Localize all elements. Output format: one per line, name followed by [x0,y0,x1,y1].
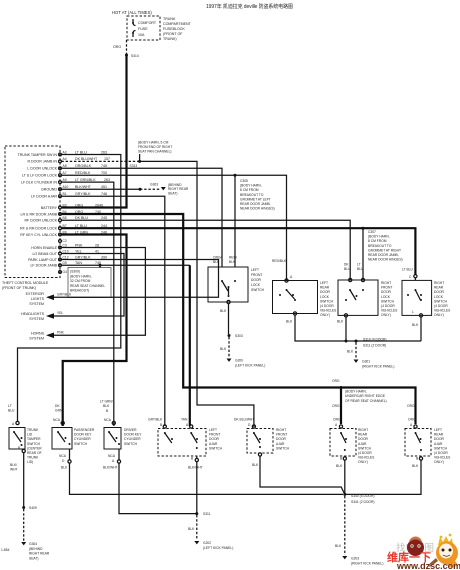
svg-text:G303: G303 [150,183,158,187]
svg-text:LF DLK CYLINDER IN: LF DLK CYLINDER IN [21,180,57,184]
svg-text:RF DOOR UNLOCK: RF DOOR UNLOCK [24,219,57,223]
svg-text:BLK/WHT: BLK/WHT [103,466,118,470]
svg-text:GRY/BLK: GRY/BLK [148,418,163,422]
pin A10 row GROUND [41,185,107,192]
svg-text:1997年 凯迪拉克 deville 防盗系统电路图: 1997年 凯迪拉克 deville 防盗系统电路图 [206,3,293,10]
svg-text:BLK/WHT: BLK/WHT [75,185,92,189]
svg-text:REAR: REAR [320,286,330,290]
driver door key lock cylinder switch S3 [100,400,142,450]
svg-text:LT: LT [8,404,12,408]
wire LT BLU 244 to right rear door lock switch [61,228,415,274]
svg-text:(S309): (S309) [70,270,80,274]
svg-text:ORG/BLK: ORG/BLK [75,164,92,168]
svg-text:PNK: PNK [75,243,83,247]
svg-text:VEHICLES: VEHICLES [434,456,451,460]
wire ORG from fuse (dashed above splice) [113,40,127,54]
splice on ORG bus [340,386,343,424]
ground G200 left kick panel [227,359,266,368]
svg-text:SWITCH: SWITCH [251,288,265,292]
svg-text:SEAT): SEAT) [29,556,38,560]
svg-text:BLK: BLK [213,260,220,264]
svg-text:BLK/: BLK/ [10,463,17,467]
svg-text:D5: D5 [63,261,67,265]
ground G203 right kick panel [342,556,383,565]
svg-text:L DOOR UNLOCK: L DOOR UNLOCK [27,167,57,171]
wire BLK/WHT from ajar switch to splice S311 [188,456,203,514]
svg-text:PNK: PNK [57,331,65,335]
svg-text:ONLY): ONLY) [358,460,368,464]
svg-text:10A: 10A [138,33,145,37]
svg-text:G304: G304 [29,542,37,546]
svg-text:ONLY): ONLY) [434,460,444,464]
svg-text:RIGHT REAR: RIGHT REAR [29,552,50,556]
svg-text:245: 245 [101,216,107,220]
svg-text:LEFT: LEFT [209,428,217,432]
svg-text:RIGHT: RIGHT [358,428,368,432]
svg-text:GROMMET AT RIGHT: GROMMET AT RIGHT [368,248,401,252]
svg-text:LT & LF DOOR LOCK: LT & LF DOOR LOCK [22,174,58,178]
wire RED/BLK 700 to left front door lock switch [61,175,235,267]
wire GRY/BLK 390 to exterior lights system [53,260,219,298]
svg-text:LT: LT [357,263,361,267]
note body harness right seat pan channel [138,141,172,161]
wire BLK from S7 to splice S340 [345,456,423,494]
wire LT GRN/BLK 248 to driver door key lock cylinder switch [61,182,113,426]
svg-text:A5: A5 [63,164,67,168]
svg-text:BLK/WHT: BLK/WHT [188,466,203,470]
wire YEL 41 to headlights system [53,254,124,317]
svg-text:(4 DOOR: (4 DOOR [434,304,448,308]
svg-text:LID): LID) [27,460,33,464]
svg-text:(RIGHT KICK PANEL): (RIGHT KICK PANEL) [362,364,395,368]
wire DK BLU 245 to right front door lock switch [61,220,350,280]
svg-text:BLK: BLK [61,466,68,470]
svg-text:SEAT): SEAT) [168,191,177,195]
left front door lock switch U1 [208,256,265,304]
svg-text:ORG: ORG [75,203,83,207]
svg-text:TRUNK: TRUNK [27,428,39,432]
svg-text:LIGHTS: LIGHTS [31,297,45,301]
theft control module dashed box [5,146,60,278]
svg-text:LT GRN/BLK: LT GRN/BLK [75,178,96,182]
wire DK BLU/WHT 157 dashed to splice S313 [61,160,139,162]
svg-text:(BODY HARN, 5 CM: (BODY HARN, 5 CM [138,141,169,145]
title [206,3,293,10]
svg-text:G301: G301 [362,360,370,364]
svg-text:NEAR DOOR HINGES): NEAR DOOR HINGES) [368,258,403,262]
svg-text:8 CM FROM: 8 CM FROM [240,188,259,192]
svg-text:AJAR: AJAR [276,442,285,446]
svg-text:(4 DOOR: (4 DOOR [358,451,372,455]
splice S313 [130,160,142,168]
svg-text:BLK: BLK [229,260,236,264]
svg-text:SWITCH: SWITCH [124,442,138,446]
pin B7 row RF & RR DOOR LOCK [20,224,107,231]
svg-text:VEHICLES: VEHICLES [381,309,398,313]
svg-text:ORG/: ORG/ [213,256,222,260]
wire PNK 28 to horns system [53,248,145,336]
svg-text:FRONT: FRONT [251,273,262,277]
svg-text:DOOR: DOOR [381,290,392,294]
svg-text:SYSTEM: SYSTEM [29,336,44,340]
wire TAN 745 to left front door ajar switch [61,265,189,426]
svg-text:REAR SEAT CHANNEL: REAR SEAT CHANNEL [70,284,105,288]
svg-text:CYLINDER: CYLINDER [124,437,141,441]
ORG bus labels [332,379,415,408]
svg-text:LO BEAM OUT: LO BEAM OUT [32,252,57,256]
svg-text:DOOR: DOOR [358,437,369,441]
pin A9 row LF DLK CYLINDER IN [21,178,110,185]
svg-text:TAN: TAN [181,418,188,422]
svg-text:A3: A3 [63,150,67,154]
wire BLK from U4 to ground bus [412,310,421,341]
svg-text:AJAR: AJAR [358,442,367,446]
ground G303 behind right rear seat [150,183,189,196]
svg-text:BREAKOUT TO: BREAKOUT TO [240,193,264,197]
svg-text:BATTERY: BATTERY [41,206,58,210]
svg-text:2640: 2640 [95,203,103,207]
svg-text:B3: B3 [63,203,67,207]
wire BLK from S5 to ground splice S340 [252,453,345,495]
svg-text:G200: G200 [235,359,243,363]
svg-text:COMFORT: COMFORT [138,21,157,25]
svg-text:ONLY): ONLY) [381,313,391,317]
right rear door lock switch U4 [402,268,451,318]
svg-text:ORG: ORG [113,45,121,49]
svg-text:390: 390 [101,255,107,259]
svg-text:LF DOOR JAMB: LF DOOR JAMB [30,264,57,268]
wire LT GRN 246 to passenger door key lock cylinder switch [61,235,126,427]
wire GRY/BLK 746 to left front door ajar switch [61,196,164,426]
right front door lock switch U3 [338,263,398,318]
svg-text:SYSTEM: SYSTEM [29,302,44,306]
hot-at-all-times label [112,10,152,15]
left front door ajar switch S4 [148,418,223,457]
svg-text:DOOR: DOOR [209,437,220,441]
svg-text:SYSTEM: SYSTEM [29,317,44,321]
svg-text:L: L [412,310,414,314]
svg-text:1-854: 1-854 [1,548,10,552]
svg-text:C10: C10 [63,249,69,253]
pin C10 row LO BEAM OUT [32,249,99,256]
svg-text:BLU: BLU [357,267,364,271]
wire ORG 740 bus to rear door ajar switches [61,214,415,424]
svg-text:RIGHT: RIGHT [276,428,286,432]
splice S340/S341 [343,493,374,504]
svg-text:S313: S313 [130,164,138,168]
svg-text:746: 746 [101,192,107,196]
right front door ajar switch S5 [234,418,290,454]
ground G202 left kick panel [194,541,233,550]
svg-text:(BODY HARN,: (BODY HARN, [70,274,92,278]
svg-text:AJAR: AJAR [434,442,443,446]
splice junction on RED/BLK [234,174,237,177]
svg-text:(FRONT OF: (FRONT OF [163,32,183,36]
svg-text:LEFT: LEFT [434,428,442,432]
svg-text:(4 DOOR: (4 DOOR [381,304,395,308]
svg-text:HORN ENABLE: HORN ENABLE [31,246,57,250]
svg-text:DK BLU/WHT: DK BLU/WHT [234,418,254,422]
svg-text:(4 DOOR: (4 DOOR [320,304,334,308]
pin B1 row LF DOOR AJAR [31,192,107,199]
wire DK BLU/WHT to right front door ajar switch [140,161,254,427]
svg-text:S414: S414 [131,54,139,58]
svg-text:NCA: NCA [104,418,112,422]
svg-text:LOCK: LOCK [320,295,330,299]
svg-text:LT BLU: LT BLU [75,150,87,154]
pin B9 row RF KEY CYL UNLOCK [20,230,107,237]
svg-text:REAR DOOR JAMB,: REAR DOOR JAMB, [368,253,399,257]
svg-text:REAR: REAR [358,433,368,437]
pin A5 row L DOOR UNLOCK [27,164,107,171]
svg-text:GROUND: GROUND [41,188,57,192]
svg-text:(FRONT OF TRUNK): (FRONT OF TRUNK) [2,286,36,290]
svg-text:LEFT: LEFT [251,268,259,272]
ground G304 behind right rear seat [21,542,50,560]
svg-text:(LEFT KICK PANEL): (LEFT KICK PANEL) [203,546,233,550]
svg-text:ORG: ORG [407,404,415,408]
arrow headlights system [21,311,63,321]
svg-text:SWITCH: SWITCH [381,299,395,303]
svg-text:NEAR DOOR HINGES): NEAR DOOR HINGES) [240,207,275,211]
svg-text:RIGHT: RIGHT [434,281,444,285]
svg-text:DOOR KEY: DOOR KEY [74,433,92,437]
svg-text:FRONT: FRONT [276,433,287,437]
svg-text:LT GRN/: LT GRN/ [100,400,113,404]
svg-text:DK: DK [344,263,349,267]
svg-text:ONLY): ONLY) [320,313,330,317]
svg-text:157: 157 [104,157,110,161]
svg-text:GRN: GRN [55,409,63,413]
svg-text:(LEFT KICK PANEL): (LEFT KICK PANEL) [235,363,265,367]
svg-text:TRUNK TAMPER SW IN: TRUNK TAMPER SW IN [18,153,58,157]
wire BLK dashed to ground G202 [188,515,197,540]
pin A7 row LT & LF DOOR LOCK [22,171,107,178]
svg-text:700: 700 [101,171,107,175]
svg-text:HOT AT (ALL TIMES): HOT AT (ALL TIMES) [112,10,152,15]
svg-text:BLK: BLK [412,464,419,468]
svg-text:LR & RR DOOR JAMB: LR & RR DOOR JAMB [20,212,57,216]
svg-text:(BODY HARN,: (BODY HARN, [368,235,390,239]
svg-text:SEAT PAN CHANNEL): SEAT PAN CHANNEL) [138,150,172,154]
svg-text:C12: C12 [63,255,69,259]
svg-text:LT BLU: LT BLU [402,268,413,272]
svg-text:PARK LAMP OUT: PARK LAMP OUT [28,258,58,262]
svg-text:LID: LID [27,433,33,437]
svg-text:TRUNK: TRUNK [27,456,39,460]
splice S311 [195,512,210,516]
svg-text:(4 DOOR: (4 DOOR [434,451,448,455]
svg-text:RF & RR DOOR LOCK: RF & RR DOOR LOCK [20,227,58,231]
svg-text:GRY/BLK: GRY/BLK [57,293,72,297]
svg-text:FUSEBLOCK: FUSEBLOCK [163,27,185,31]
svg-text:S310 (4 DOOR): S310 (4 DOOR) [363,338,386,342]
wire BLK/WHT from driver key switch to splice S311 [103,449,196,514]
wire BLK dashed to ground G200 [220,337,229,358]
svg-text:COMPARTMENT: COMPARTMENT [163,22,192,26]
splice on LT BLU [362,227,365,280]
pin B5 row RF DOOR UNLOCK [24,216,107,223]
svg-text:REAR: REAR [434,433,444,437]
wire BLK from U2 to ground bus [286,315,421,341]
svg-text:VEHICLES: VEHICLES [434,309,451,313]
wire BLK/WHT 451 to ground G303 [61,188,160,191]
svg-text:ORG: ORG [332,379,340,383]
svg-text:VEHICLES: VEHICLES [358,456,375,460]
svg-text:BREAKOUT TO: BREAKOUT TO [368,244,392,248]
svg-text:REAR: REAR [434,286,444,290]
svg-text:PASSENGER: PASSENGER [74,428,95,432]
left rear door lock switch U2 [272,259,337,317]
splice S303 [228,334,243,338]
svg-text:ORG: ORG [333,418,341,422]
svg-text:LEFT: LEFT [320,281,328,285]
svg-text:NCA: NCA [59,454,67,458]
svg-text:(CENTER: (CENTER [27,446,42,450]
svg-text:DOOR: DOOR [434,437,445,441]
svg-text:SWITCH: SWITCH [434,299,448,303]
splice on TAN [99,264,102,268]
svg-text:NCA: NCA [53,418,61,422]
svg-text:8 CM FROM: 8 CM FROM [368,239,387,243]
svg-text:DOOR KEY: DOOR KEY [124,433,142,437]
svg-text:263: 263 [104,178,110,182]
svg-text:GRY/BLK: GRY/BLK [75,192,91,196]
svg-text:DOOR: DOOR [320,290,331,294]
connector C305 note [240,179,275,211]
svg-text:SWITCH: SWITCH [74,442,88,446]
svg-text:DK BLU/WHT: DK BLU/WHT [75,157,98,161]
svg-text:HORNS: HORNS [31,331,45,335]
svg-text:ONLY): ONLY) [434,313,444,317]
watermark dzsc logo [396,534,458,568]
svg-text:TRUNK: TRUNK [163,17,176,21]
svg-text:A7: A7 [63,171,67,175]
svg-text:REAR DOOR JAMB,: REAR DOOR JAMB, [240,202,271,206]
splice S409 [22,506,37,510]
svg-text:DRIVER: DRIVER [124,428,137,432]
pin D5 row LF DOOR JAMB [30,261,101,268]
svg-text:REAR OF: REAR OF [27,451,42,455]
splice S310/S311 on ground bus [355,338,387,348]
svg-text:DK BLU: DK BLU [75,216,88,220]
svg-text:RED/: RED/ [229,256,237,260]
svg-text:RIGHT: RIGHT [381,281,391,285]
svg-text:(BEHIND: (BEHIND [29,547,43,551]
svg-text:LOCK: LOCK [381,295,391,299]
svg-text:FRONT: FRONT [381,286,392,290]
svg-text:HEADLIGHTS: HEADLIGHTS [21,312,45,316]
svg-text:SWITCH: SWITCH [27,442,41,446]
svg-text:SWITCH: SWITCH [434,446,448,450]
svg-text:BLK: BLK [252,463,259,467]
svg-text:S303: S303 [235,334,243,338]
wire BLK from U3 to ground bus [337,317,348,343]
svg-text:R DOOR JAMB IN: R DOOR JAMB IN [27,160,57,164]
svg-text:SWITCH: SWITCH [209,446,223,450]
svg-text:OF REAR SEAT CHANNEL): OF REAR SEAT CHANNEL) [345,399,387,403]
svg-text:451: 451 [101,185,107,189]
svg-text:C305: C305 [240,179,248,183]
svg-text:263: 263 [101,150,107,154]
wire BLK from S6 to splice S340 [336,456,346,494]
splice note box S309 [68,268,111,298]
svg-text:28: 28 [95,243,99,247]
svg-text:WHT: WHT [10,468,18,472]
svg-text:BLK: BLK [412,323,419,327]
wire BLK dashed to ground G203 [335,496,345,555]
fuse block name label [163,17,192,41]
wire LT BLU 263 from A3 to trunk lid tamper switch [18,155,121,422]
svg-text:(BODY HARN,: (BODY HARN, [240,184,262,188]
svg-text:41: 41 [95,249,99,253]
svg-text:EXTERIOR: EXTERIOR [26,292,45,296]
pin A4 row R DOOR JAMB IN [27,157,110,164]
arrow exterior lights system [26,292,72,306]
svg-text:ORG: ORG [332,404,340,408]
wire RED/BLK via C305 to left rear door lock switch [235,175,287,280]
svg-text:SWITCH: SWITCH [358,446,372,450]
svg-text:SWITCH: SWITCH [276,446,290,450]
svg-text:YEL: YEL [57,311,63,315]
svg-text:NCA: NCA [108,454,116,458]
ground G301 right kick panel [354,360,395,369]
pin A3 row TRUNK TAMPER SW IN [18,150,107,157]
svg-text:FRONT: FRONT [209,433,220,437]
svg-text:C307: C307 [368,230,376,234]
left rear door ajar switch S7 [405,418,451,465]
svg-text:YEL: YEL [75,249,82,253]
svg-text:RED/BLK: RED/BLK [75,171,91,175]
fuse F1 COMFORT 10A [132,19,157,37]
svg-text:BLK: BLK [188,527,195,531]
svg-text:RED/BLK: RED/BLK [272,259,287,263]
svg-text:745: 745 [101,164,107,168]
trunk lid tamper switch S1 [8,404,42,464]
arrow horns system [29,331,64,341]
svg-text:LF DOOR AJAR: LF DOOR AJAR [31,195,57,199]
svg-text:(RIGHT KICK PANEL): (RIGHT KICK PANEL) [351,561,384,565]
svg-text:BREAKOUT): BREAKOUT) [70,289,89,293]
svg-text:G4: G4 [63,270,68,274]
svg-text:32 CM FROM: 32 CM FROM [70,279,91,283]
svg-text:TAN: TAN [75,261,82,265]
svg-text:VEHICLES: VEHICLES [320,309,337,313]
wire ORG/BLK 745 to left front door lock switch [61,168,222,267]
svg-text:BLU: BLU [8,409,15,413]
svg-text:A4: A4 [63,157,67,161]
svg-text:LOCK: LOCK [251,283,261,287]
svg-text:LOCK: LOCK [434,295,444,299]
svg-text:BLK: BLK [286,320,293,324]
svg-text:RF KEY CYL UNLOCK: RF KEY CYL UNLOCK [20,233,57,237]
svg-text:DOOR: DOOR [251,278,262,282]
watermark text [387,550,460,570]
svg-text:GROMMET AT LEFT: GROMMET AT LEFT [240,197,271,201]
svg-text:SWITCH: SWITCH [320,299,334,303]
svg-text:BLK: BLK [103,404,110,408]
page number [1,548,10,552]
svg-text:DOOR: DOOR [434,290,445,294]
svg-text:BLK: BLK [347,350,354,354]
wire dashed to ground G304 [23,509,25,541]
module name label [2,281,49,290]
svg-text:BLK: BLK [337,320,344,324]
svg-text:S340 (4 DOOR): S340 (4 DOOR) [351,494,374,498]
wire ORG vertical to battery pin B3 [62,55,127,208]
svg-text:GRY/BLK: GRY/BLK [75,255,91,259]
pin C2 row [59,239,67,243]
